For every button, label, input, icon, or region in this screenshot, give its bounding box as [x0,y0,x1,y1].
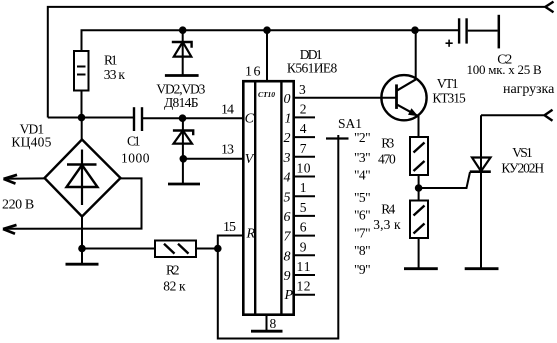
label CT10 [258,90,275,99]
field digit 9 [284,269,291,284]
field digit 2 [284,131,291,146]
pin label 6 [300,220,307,235]
label VS1 [501,145,544,176]
transistor VT1 [381,75,426,120]
svg-text:470: 470 [378,152,396,167]
field digit 6 [284,210,291,225]
output stub pin 11 [294,274,315,276]
switch position label 3 [354,150,371,165]
pin label 4 [300,121,307,136]
wire SA1 return loop [218,135,338,339]
pin label 8 [270,316,277,331]
svg-text:К561ИЕ8: К561ИЕ8 [287,61,338,76]
svg-text:1000: 1000 [121,150,150,165]
svg-text:100 мк. x 25 В: 100 мк. x 25 В [467,62,543,77]
terminal bar right of C2 [498,15,501,49]
load terminal fork 2 [545,110,553,121]
zener diode VD2 [172,30,192,75]
pin label 9 [300,239,307,254]
svg-text:220 В: 220 В [2,198,34,213]
field letter V [245,152,255,167]
wire AC input 1 [4,177,45,179]
wire bridge top lead [81,118,83,140]
svg-text:C: C [245,111,255,126]
field digit 3 [283,151,291,166]
svg-text:1: 1 [285,112,292,127]
output stub pin 4 [294,136,315,138]
output stub pin 10 [294,176,315,178]
node junction dot [78,114,86,122]
label R2 [163,263,186,294]
wire output 0 to VT1 base [294,97,397,99]
capacitor C1 [134,107,142,131]
output stub pin 2 [294,116,315,118]
pin label 16 [245,65,261,80]
svg-text:R4: R4 [381,202,395,217]
svg-text:15: 15 [223,220,236,235]
wire pin 16 to DD1 top [266,30,268,82]
switch position label 6 [354,208,371,223]
resistor R3 [410,137,428,175]
wire top rail from bridge plus node to load terminal 1 [48,7,546,118]
thyristor VS1 [470,158,491,172]
label VD1 [11,122,51,150]
svg-text:82 к: 82 к [163,279,186,294]
switch position label 7 [354,225,371,240]
junction dot R2 pin15 [214,245,222,253]
pin label 10 [297,161,311,176]
svg-text:Д814Б: Д814Б [164,95,199,110]
pin label 7 [300,141,307,156]
field digit 0 [284,92,291,107]
svg-text:2: 2 [300,101,307,116]
output stub pin 5 [294,215,315,217]
load terminal fork 1 [545,2,553,13]
svg-text:"8": "8" [354,243,371,258]
svg-text:14: 14 [221,103,234,118]
junction dot VD3 top [179,114,187,122]
label нагрузка [503,82,555,97]
svg-text:"7": "7" [354,225,371,240]
pin label 14 [221,103,234,118]
wire to DD1 pin 13 [183,158,243,160]
wire to DD1 pin 15 [218,236,243,249]
svg-text:12: 12 [297,279,311,294]
svg-text:КЦ405: КЦ405 [11,134,51,149]
wire R2 right lead [196,248,218,250]
field letter P [284,288,294,303]
svg-text:КТ315: КТ315 [432,91,466,106]
svg-text:13: 13 [221,143,234,158]
svg-text:5: 5 [300,200,307,215]
wire DD1 pin 8 to ground [266,315,268,332]
wire bridge bottom to ground [81,217,83,265]
wire R3 to R4 [418,175,420,201]
label 220 V [2,198,34,213]
wire R1 top lead and supply rail [82,30,459,51]
pin label 2 [300,101,307,116]
pin label 1 [300,180,307,195]
pin label 15 [223,220,236,235]
resistor R4 [410,201,428,239]
svg-text:R: R [246,227,256,242]
svg-text:3: 3 [283,151,291,166]
field letter C [245,111,255,126]
svg-text:"6": "6" [354,208,371,223]
output stub pin 6 [294,235,315,237]
output stub pin 7 [294,156,315,158]
svg-text:3: 3 [299,82,306,97]
field digit 5 [284,190,291,205]
field letter R [246,227,256,242]
switch position label 8 [354,243,371,258]
wire R1 bottom lead [81,91,83,118]
wire C1 to DD1 pin 14 [143,117,243,119]
svg-text:"5": "5" [354,190,371,205]
bridge internal diode [67,150,98,206]
svg-text:C1: C1 [127,134,141,149]
pin label 12 [297,279,311,294]
label R1 [104,53,126,83]
svg-text:"4": "4" [354,167,371,182]
svg-text:5: 5 [284,190,291,205]
output stub pin 9 [294,254,315,256]
resistor R1 [74,51,89,91]
ground for R4 [404,267,438,270]
svg-text:16: 16 [245,65,261,80]
VT1 emitter line with arrow [397,104,419,116]
output stub pin 12 [294,294,315,296]
svg-text:SA1: SA1 [338,116,362,131]
svg-text:8: 8 [270,316,277,331]
svg-text:9: 9 [300,239,307,254]
arrow AC input 2 [3,225,17,234]
plus sign of C2 [446,40,453,47]
svg-text:V: V [245,152,255,167]
svg-text:P: P [284,288,294,303]
switch position label 9 [354,262,371,277]
switch position label 5 [354,190,371,205]
svg-text:10: 10 [297,161,311,176]
svg-text:R1: R1 [104,53,118,68]
value label C1 [121,134,150,166]
svg-text:2: 2 [284,131,291,146]
arrow AC input 1 [4,175,18,184]
junction dot VT1 collector on rail [411,26,419,34]
junction dot pin16 on rail [263,26,271,34]
wire VT1 collector to rail [415,30,417,79]
pin label 11 [297,259,311,274]
svg-text:7: 7 [284,230,292,245]
junction dot VD3 bottom / pin 13 [180,155,188,163]
ground for bridge [66,263,99,266]
junction dot VD2 on rail [179,26,187,34]
IC DD1 body [243,81,293,315]
svg-text:VT1: VT1 [437,76,459,91]
pin label 13 [221,143,234,158]
wire VS1 anode and cathode vertical [480,115,482,268]
pin label 5 [300,200,307,215]
svg-text:3,3 к: 3,3 к [373,217,401,232]
svg-text:9: 9 [284,269,291,284]
wire gate to VS1 [419,172,470,188]
svg-text:33 к: 33 к [104,67,126,82]
switch position label 4 [354,167,371,182]
svg-text:0: 0 [284,92,291,107]
svg-text:"3": "3" [354,150,371,165]
label R4 [373,202,401,232]
field digit 1 [285,112,292,127]
svg-text:КУ202Н: КУ202Н [501,160,544,175]
wire node horizontal to C1 [48,117,134,119]
resistor R2 [155,241,196,258]
VT1 base bar [395,84,398,109]
capacitor C2 [459,18,467,43]
label R3 [378,136,396,167]
diode bridge VD1 [45,140,121,217]
wire R2 left lead [82,248,155,250]
switch SA1 wiper bar [326,137,349,139]
svg-text:1: 1 [300,180,307,195]
VT1 collector line [397,79,417,91]
svg-text:DD1: DD1 [300,47,323,62]
zener diode VD3 [173,118,193,184]
svg-text:нагрузка: нагрузка [503,82,555,97]
switch position label 2 [354,130,371,145]
wire R4 to ground [418,238,420,269]
ground for VD3 [168,183,200,186]
label VT1 [432,76,466,106]
output stub pin 1 [294,195,315,197]
field digit 8 [284,249,291,264]
junction dot gate node [415,184,423,192]
pin label 3 [299,82,306,97]
svg-text:R3: R3 [381,136,394,151]
field digit 4 [284,171,291,186]
svg-text:4: 4 [284,171,291,186]
svg-text:6: 6 [284,210,291,225]
ground for VD2 [165,74,199,77]
label DD1 [287,47,338,76]
wire VT1 emitter to R3 [418,116,420,137]
label VD2 VD3 [156,81,205,110]
junction dot bridge minus [78,245,86,253]
wire C2 right lead [468,30,498,32]
svg-text:R2: R2 [166,263,180,278]
svg-text:VS1: VS1 [512,145,532,160]
ground for VS1 [465,267,499,270]
svg-text:4: 4 [300,121,307,136]
wire AC input 2 from bridge right vertex [4,178,142,228]
svg-text:6: 6 [300,220,307,235]
wire load terminal 2 [481,114,545,116]
svg-text:"2": "2" [354,130,371,145]
field digit 7 [284,230,292,245]
ground for pin 8 [251,330,283,333]
svg-text:7: 7 [300,141,307,156]
value label C2 [467,53,543,78]
svg-text:СТ10: СТ10 [258,90,275,99]
svg-text:11: 11 [297,259,311,274]
label SA1 [338,116,362,131]
svg-text:8: 8 [284,249,291,264]
svg-text:"9": "9" [354,262,371,277]
